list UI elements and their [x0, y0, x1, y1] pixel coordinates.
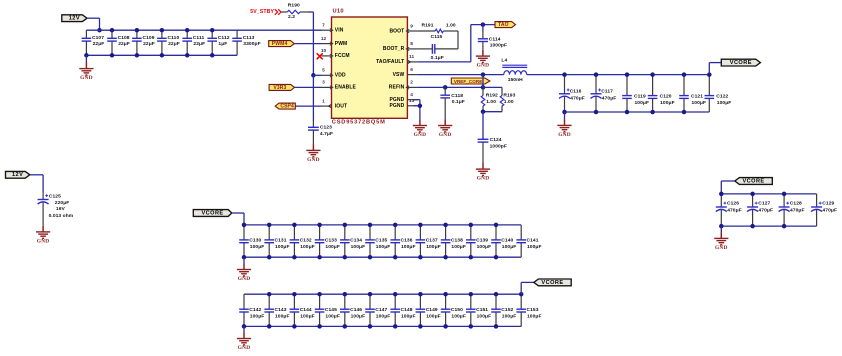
capacitor C111 [182, 30, 205, 55]
pin 2 REFIN [389, 80, 418, 91]
svg-text:R190: R190 [288, 3, 300, 9]
svg-text:1μF: 1μF [218, 41, 227, 47]
capacitor C113 [232, 30, 260, 55]
capacitor C150 100uF [441, 294, 466, 326]
wire VCORE output bus top [527, 74, 710, 76]
node 5V_STBY off-sheet [250, 9, 281, 15]
svg-text:100μF: 100μF [401, 244, 416, 250]
svg-text:C137: C137 [426, 238, 438, 244]
wire 5V_STBY to VDD [308, 12, 313, 75]
op-amp U10 CSD95372BQ5M body [332, 8, 408, 125]
port PWM4 [269, 41, 295, 47]
svg-text:VCORE: VCORE [201, 210, 223, 216]
ground GND (C124) [476, 163, 490, 182]
svg-text:22μF: 22μF [168, 41, 180, 47]
svg-text:5V_STBY: 5V_STBY [250, 9, 274, 15]
capacitor C149 100uF [416, 294, 441, 326]
svg-text:100μF: 100μF [300, 244, 315, 250]
svg-text:100μF: 100μF [325, 244, 340, 250]
ground GND (PGND) [413, 119, 427, 138]
svg-text:C124: C124 [490, 137, 502, 143]
svg-text:C111: C111 [193, 35, 205, 41]
svg-text:CSP4: CSP4 [280, 104, 294, 110]
svg-text:C117: C117 [601, 89, 613, 95]
svg-text:0.1μF: 0.1μF [452, 99, 465, 105]
svg-text:C122: C122 [716, 94, 728, 100]
svg-text:CSD95372BQ5M: CSD95372BQ5M [332, 120, 386, 126]
port V3R3 [269, 84, 294, 90]
svg-text:100μF: 100μF [635, 100, 650, 106]
wire to VCORE flag (top right) [709, 63, 721, 75]
pin 12 PWM [321, 36, 348, 47]
wire VSW to REFIN node (over flag) [482, 75, 484, 88]
ground GND (C123) [306, 144, 320, 163]
capacitor C139 100uF [466, 225, 491, 257]
svg-text:V3R3: V3R3 [273, 85, 286, 91]
ground GND (C118) [438, 119, 452, 138]
svg-text:100μF: 100μF [477, 244, 492, 250]
svg-text:U10: U10 [333, 8, 344, 14]
capacitor C147 100uF [365, 294, 390, 326]
svg-text:GND: GND [238, 276, 251, 282]
svg-text:100μF: 100μF [426, 244, 441, 250]
capacitor C142 100uF [239, 294, 264, 326]
svg-text:ENABLE: ENABLE [335, 85, 357, 91]
svg-text:C127: C127 [758, 201, 770, 207]
svg-text:C128: C128 [790, 201, 802, 207]
svg-text:C133: C133 [325, 238, 337, 244]
svg-text:2.2: 2.2 [288, 14, 295, 20]
svg-text:0.1μF: 0.1μF [431, 55, 444, 61]
svg-text:13: 13 [409, 98, 415, 104]
svg-text:TAO/FAULT: TAO/FAULT [376, 59, 404, 65]
svg-text:VSW: VSW [393, 72, 405, 78]
power flag VCORE (bottom right) [735, 178, 773, 185]
port CSP4 [275, 103, 295, 109]
svg-text:100μF: 100μF [376, 244, 391, 250]
ground GND (470uF bank) [714, 226, 728, 251]
svg-text:VCORE: VCORE [742, 178, 764, 184]
svg-text:C139: C139 [476, 238, 488, 244]
svg-text:0.013 ohm: 0.013 ohm [49, 213, 74, 219]
node PGND junction [418, 104, 423, 109]
svg-text:100μF: 100μF [401, 313, 416, 319]
junction dots bottom bank [242, 292, 524, 329]
svg-text:470μF: 470μF [823, 208, 838, 214]
svg-text:100μF: 100μF [692, 100, 707, 106]
svg-text:C116: C116 [570, 89, 582, 95]
wire PWM4 to pin 12 [294, 43, 321, 45]
svg-text:C145: C145 [325, 307, 337, 313]
node snubber bottom junction [481, 109, 486, 114]
svg-text:BOOT_R: BOOT_R [383, 46, 405, 52]
capacitor C112 [207, 30, 229, 55]
svg-text:1.00: 1.00 [446, 23, 456, 29]
svg-text:7: 7 [322, 23, 325, 29]
power flag VCORE (top right) [721, 59, 760, 66]
svg-text:C121: C121 [691, 94, 703, 100]
svg-text:GND: GND [238, 345, 251, 351]
capacitor C115 0.1uF [417, 34, 443, 61]
capacitor C135 100uF [365, 225, 390, 257]
capacitor C146 100uF [340, 294, 365, 326]
svg-text:100μF: 100μF [250, 313, 265, 319]
power flag 12V (bottom-left) [6, 171, 30, 178]
svg-text:GND: GND [477, 176, 490, 182]
svg-text:2: 2 [410, 80, 413, 86]
power flag 12V (top-left) [62, 15, 87, 22]
pin 11 TAO/FAULT [376, 54, 417, 65]
wire REFIN net [417, 75, 483, 88]
svg-text:100μF: 100μF [502, 244, 517, 250]
capacitor C138 100uF [441, 225, 466, 257]
svg-text:GND: GND [558, 132, 571, 138]
svg-text:R191: R191 [421, 23, 433, 29]
svg-text:PGND: PGND [389, 103, 404, 109]
svg-text:12V: 12V [12, 172, 23, 178]
svg-text:100μF: 100μF [275, 244, 290, 250]
svg-text:C146: C146 [350, 307, 362, 313]
resistor R191 1.00 [417, 23, 458, 33]
svg-text:C113: C113 [243, 35, 255, 41]
svg-text:C120: C120 [660, 94, 672, 100]
capacitor C110 [157, 30, 180, 55]
svg-text:C123: C123 [320, 125, 332, 131]
capacitor C140 100uF [491, 225, 516, 257]
capacitor C127 470uF [747, 194, 773, 226]
capacitor C128 470uF [779, 194, 805, 226]
pin 10 FCCM [321, 48, 350, 59]
svg-text:5: 5 [322, 68, 325, 74]
pin 3 ENABLE [322, 80, 357, 91]
svg-text:PGND: PGND [389, 97, 404, 103]
svg-text:C150: C150 [451, 307, 463, 313]
pin 4 PGND [389, 92, 417, 103]
capacitor C116 470uF [559, 75, 585, 112]
svg-text:470μF: 470μF [727, 208, 742, 214]
pin 7 VIN [322, 23, 344, 34]
svg-text:C130: C130 [249, 238, 261, 244]
svg-text:22μF: 22μF [118, 41, 130, 47]
wire CSP4 to pin 1 [295, 105, 321, 107]
capacitor C126 470uF [716, 194, 742, 226]
junction dots input bank [84, 28, 214, 58]
capacitor C144 100uF [290, 294, 315, 326]
power flag VCORE (bottom bank) [534, 279, 571, 286]
svg-text:C132: C132 [300, 238, 312, 244]
svg-text:100μF: 100μF [376, 313, 391, 319]
svg-text:C107: C107 [92, 35, 104, 41]
ground GND (input bank) [79, 55, 93, 81]
capacitor C137 100uF [416, 225, 441, 257]
svg-text:100μF: 100μF [451, 244, 466, 250]
svg-text:C144: C144 [300, 307, 312, 313]
svg-text:C131: C131 [275, 238, 287, 244]
svg-text:C108: C108 [118, 35, 130, 41]
capacitor C132 100uF [290, 225, 315, 257]
ground GND (C125) [36, 226, 50, 245]
svg-text:4.7μF: 4.7μF [320, 131, 333, 137]
capacitor C131 100uF [264, 225, 289, 257]
svg-text:PWM4: PWM4 [272, 41, 288, 47]
node REFIN junctions [443, 85, 485, 90]
capacitor C125 220uF [38, 193, 74, 226]
svg-text:1000pF: 1000pF [490, 43, 507, 49]
svg-text:GND: GND [477, 63, 490, 69]
wire bottom bus of input bank [86, 54, 237, 56]
svg-text:C115: C115 [431, 34, 443, 40]
capacitor C107 [82, 30, 105, 55]
wire 470uF bank top bus [721, 193, 816, 195]
capacitor C151 100uF [466, 294, 491, 326]
port TAO [495, 22, 516, 28]
resistor R192 1.00 [481, 87, 498, 111]
svg-text:C142: C142 [249, 307, 261, 313]
junction dots 470uF bank [719, 192, 786, 229]
svg-text:C112: C112 [218, 35, 230, 41]
node TAO junction [481, 22, 486, 27]
svg-text:100μF: 100μF [660, 100, 675, 106]
ground GND (bottom bank) [237, 326, 251, 351]
capacitor C108 [107, 30, 130, 55]
wire VCORE output bus bottom [565, 111, 710, 113]
svg-text:470μF: 470μF [602, 96, 617, 102]
svg-text:100μF: 100μF [300, 313, 315, 319]
svg-text:100μF: 100μF [502, 313, 517, 319]
wire VCORE flag to 470uF bank [721, 181, 735, 194]
capacitor C121 100uF [679, 75, 706, 112]
no-connect X on FCCM pin [317, 53, 323, 59]
svg-text:C118: C118 [451, 93, 463, 99]
svg-text:C109: C109 [143, 35, 155, 41]
svg-text:100μF: 100μF [275, 313, 290, 319]
capacitor C141 100uF [516, 225, 541, 257]
svg-text:4: 4 [410, 92, 413, 98]
svg-text:100μF: 100μF [451, 313, 466, 319]
svg-text:1.00: 1.00 [504, 99, 514, 105]
svg-text:C141: C141 [527, 238, 539, 244]
wire VSW net [417, 74, 503, 76]
svg-text:IOUT: IOUT [335, 103, 347, 109]
node VDD junction [311, 73, 316, 78]
svg-text:100μF: 100μF [351, 313, 366, 319]
svg-text:100μF: 100μF [527, 313, 542, 319]
svg-text:6: 6 [410, 67, 413, 73]
svg-text:C135: C135 [375, 238, 387, 244]
svg-text:100μF: 100μF [527, 244, 542, 250]
svg-text:GND: GND [439, 132, 452, 138]
wire VIN net top bus [86, 29, 321, 31]
svg-text:C110: C110 [168, 35, 180, 41]
svg-text:C153: C153 [527, 307, 539, 313]
svg-text:12V: 12V [69, 16, 80, 22]
svg-text:C149: C149 [426, 307, 438, 313]
svg-text:100μF: 100μF [717, 100, 732, 106]
svg-text:TAO: TAO [498, 22, 509, 28]
capacitor C134 100uF [340, 225, 365, 257]
svg-text:C140: C140 [501, 238, 513, 244]
capacitor C129 470uF [811, 194, 837, 226]
svg-text:C129: C129 [822, 201, 834, 207]
node 12V bus junction [97, 28, 102, 33]
capacitor C114 1000pF [478, 25, 507, 50]
svg-text:GND: GND [80, 75, 93, 81]
inductor L4 [501, 58, 527, 83]
wire bottom bank top bus [244, 293, 521, 295]
svg-text:C138: C138 [451, 238, 463, 244]
svg-text:C125: C125 [49, 194, 61, 200]
pin 8 BOOT_R [383, 41, 418, 52]
wire middle bank top bus [244, 224, 521, 226]
capacitor C124 1000pF [478, 112, 507, 163]
svg-text:220μF: 220μF [55, 200, 70, 206]
wire middle bank bottom bus [244, 256, 521, 258]
svg-text:VREF_CORE: VREF_CORE [454, 79, 483, 84]
svg-text:GND: GND [37, 238, 50, 244]
svg-text:1.00: 1.00 [486, 99, 496, 105]
svg-text:L4: L4 [501, 58, 507, 64]
svg-text:150nH: 150nH [508, 77, 523, 83]
svg-text:10: 10 [321, 48, 327, 54]
port VREF_CORE [451, 78, 490, 84]
capacitor C118 0.1uF [440, 87, 464, 119]
svg-text:1000pF: 1000pF [490, 144, 507, 150]
svg-text:BOOT: BOOT [389, 28, 404, 34]
wire 12V flag to bus [87, 18, 100, 30]
pin 9 BOOT [389, 23, 417, 34]
capacitor C122 100uF [705, 75, 732, 112]
svg-text:470μF: 470μF [570, 96, 585, 102]
wire VCORE flag to middle bank [232, 213, 244, 225]
wire BOOT to C115 [435, 31, 458, 49]
svg-text:PWM: PWM [335, 41, 348, 47]
capacitor C136 100uF [390, 225, 415, 257]
svg-text:C119: C119 [634, 94, 646, 100]
power flag VCORE (middle bank) [193, 210, 232, 217]
ground GND (middle bank) [237, 257, 251, 282]
svg-text:C134: C134 [350, 238, 362, 244]
svg-text:100μF: 100μF [477, 313, 492, 319]
svg-text:R192: R192 [486, 92, 498, 98]
svg-text:12: 12 [321, 36, 327, 42]
svg-text:REFIN: REFIN [389, 85, 405, 91]
svg-text:GND: GND [715, 245, 728, 251]
svg-text:VCORE: VCORE [541, 280, 563, 286]
wire bottom bank bottom bus [244, 325, 521, 327]
capacitor C117 470uF [591, 75, 617, 112]
ground GND (C114) [476, 50, 490, 69]
svg-text:100μF: 100μF [351, 244, 366, 250]
wire TAO/FAULT to TAO flag [417, 25, 495, 62]
svg-text:11: 11 [409, 54, 414, 60]
capacitor C143 100uF [264, 294, 289, 326]
junction dots output bank [562, 72, 711, 114]
svg-text:9: 9 [410, 23, 413, 29]
capacitor C130 100uF [239, 225, 264, 257]
capacitor C123 4.7uF [308, 121, 333, 144]
capacitor C119 100uF [622, 75, 649, 112]
wire V3R3 to pin 3 [295, 86, 322, 88]
capacitor C152 100uF [491, 294, 516, 326]
ground GND (output bank) [557, 112, 571, 138]
svg-text:1: 1 [322, 98, 325, 104]
svg-text:22μF: 22μF [143, 41, 155, 47]
svg-text:100μF: 100μF [325, 313, 340, 319]
capacitor C109 [132, 30, 155, 55]
wire VDD to pin 5 [313, 74, 321, 76]
pin 5 VDD [322, 68, 346, 79]
svg-text:3: 3 [322, 80, 325, 86]
svg-text:C147: C147 [375, 307, 387, 313]
pin 1 IOUT [322, 98, 348, 109]
svg-text:VIN: VIN [335, 28, 344, 34]
capacitor C120 100uF [648, 75, 675, 112]
svg-text:3300pF: 3300pF [243, 41, 260, 47]
wire PGND pins to ground [414, 100, 420, 120]
svg-text:C152: C152 [501, 307, 513, 313]
wire bottom bank to VCORE flag [521, 282, 534, 294]
svg-text:470μF: 470μF [759, 208, 774, 214]
junction dots middle bank [242, 223, 499, 260]
capacitor C145 100uF [315, 294, 340, 326]
svg-text:C114: C114 [489, 36, 501, 42]
svg-text:100μF: 100μF [426, 313, 441, 319]
svg-text:VCORE: VCORE [730, 60, 752, 66]
svg-text:22μF: 22μF [93, 41, 105, 47]
svg-text:22μF: 22μF [193, 41, 205, 47]
svg-text:100μF: 100μF [250, 244, 265, 250]
svg-text:16V: 16V [56, 206, 66, 212]
resistor R190 2.2 [281, 3, 308, 21]
capacitor C153 100uF [516, 294, 541, 326]
svg-text:R193: R193 [503, 92, 515, 98]
wire 12V to C125 [30, 175, 43, 193]
resistor R193 1.00 [483, 87, 516, 111]
svg-text:C148: C148 [401, 307, 413, 313]
capacitor C133 100uF [315, 225, 340, 257]
svg-text:470μF: 470μF [790, 208, 805, 214]
svg-text:GND: GND [414, 132, 427, 138]
pin 6 VSW [393, 67, 418, 78]
svg-text:VDD: VDD [335, 73, 346, 79]
svg-text:8: 8 [410, 41, 413, 47]
wire VDD branch down to C123 [312, 75, 314, 121]
svg-text:C126: C126 [727, 201, 739, 207]
pin 13 PGND [389, 98, 417, 109]
svg-text:GND: GND [307, 157, 320, 163]
svg-text:C143: C143 [275, 307, 287, 313]
svg-text:C151: C151 [476, 307, 488, 313]
wire 470uF bank bottom bus [721, 225, 816, 227]
node VSW snubber junction [481, 72, 486, 77]
svg-text:C136: C136 [401, 238, 413, 244]
capacitor C148 100uF [390, 294, 415, 326]
svg-text:FCCM: FCCM [335, 53, 350, 59]
